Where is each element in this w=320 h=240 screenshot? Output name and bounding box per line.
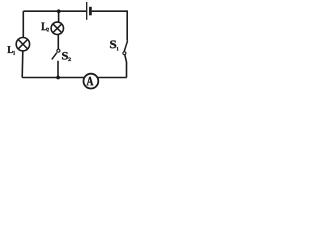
label L1 <box>8 46 15 55</box>
wire left lower <box>21 51 24 77</box>
label S2 <box>62 52 71 61</box>
switch S1 <box>123 41 128 55</box>
wire S2 to bottom <box>57 61 59 78</box>
label L2 <box>41 23 49 32</box>
wire L2 to S2 <box>57 35 59 50</box>
lamp L1 <box>16 38 29 51</box>
wire top-right segment <box>92 10 128 12</box>
label S1 <box>110 41 118 51</box>
battery cell <box>87 2 91 20</box>
wire L2 branch upper <box>58 11 60 22</box>
wire right upper <box>126 10 128 40</box>
ammeter letter A <box>87 77 94 85</box>
ammeter A <box>84 74 99 89</box>
node junction top <box>57 9 61 13</box>
wire left upper <box>22 11 24 37</box>
lamp L2 <box>51 22 63 34</box>
wire bottom <box>22 77 127 79</box>
switch S2 <box>52 49 60 59</box>
wire right lower <box>125 55 127 78</box>
node junction bottom <box>56 76 60 80</box>
wire top-left segment <box>23 10 86 12</box>
